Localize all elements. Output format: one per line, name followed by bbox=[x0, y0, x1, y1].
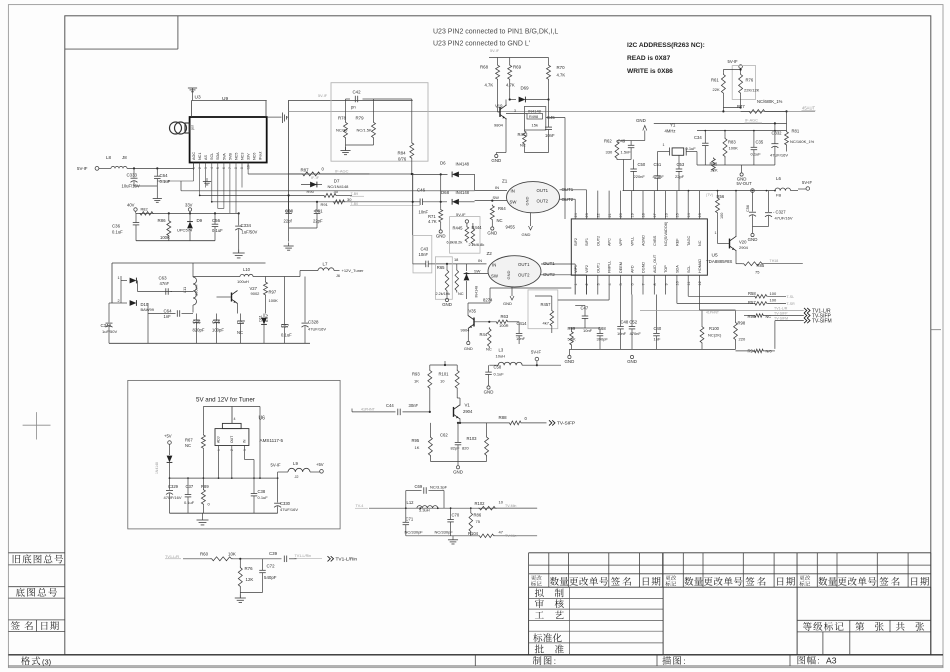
wire Z1 IN long line bbox=[180, 181, 182, 191]
svg-text:IN: IN bbox=[511, 189, 515, 194]
svg-text:SIF1: SIF1 bbox=[585, 238, 589, 246]
svg-text:- C327: - C327 bbox=[773, 210, 786, 215]
svg-text:SCL: SCL bbox=[210, 153, 214, 160]
svg-text:5V-IF: 5V-IF bbox=[728, 59, 738, 64]
svg-text:R67: R67 bbox=[185, 438, 193, 443]
wire tuner pin1 to 5V rail bbox=[193, 163, 195, 182]
svg-text:5VA: 5VA bbox=[222, 153, 226, 160]
wire V19 emitter bbox=[505, 118, 507, 152]
wire smps top rail bbox=[112, 262, 266, 264]
svg-text:V1: V1 bbox=[465, 403, 471, 408]
svg-text:R63: R63 bbox=[501, 314, 509, 319]
svg-text:psl: psl bbox=[191, 125, 195, 130]
svg-text:GND: GND bbox=[506, 271, 511, 280]
svg-text:24: 24 bbox=[574, 213, 578, 217]
svg-text:CVBS: CVBS bbox=[653, 235, 657, 246]
svg-text:TV1-L/Rin: TV1-L/Rin bbox=[336, 557, 358, 563]
svg-text:C39: C39 bbox=[269, 551, 278, 556]
svg-text:+12V_Tuner: +12V_Tuner bbox=[342, 268, 365, 273]
svg-text:IN4148: IN4148 bbox=[456, 190, 470, 195]
svg-text:10uH: 10uH bbox=[496, 353, 506, 358]
svg-text:R100: R100 bbox=[709, 326, 720, 331]
svg-text:1uF/50V: 1uF/50V bbox=[102, 329, 117, 334]
svg-text:U23 PIN2 connected to PIN1 B/G: U23 PIN2 connected to PIN1 B/G,DK,I,L bbox=[433, 29, 558, 36]
svg-text:19: 19 bbox=[630, 213, 634, 217]
svg-text:1.5nF: 1.5nF bbox=[621, 150, 632, 155]
wire SDA/SCL down from IC bbox=[676, 295, 678, 304]
wire V35 collector link bbox=[490, 287, 571, 289]
svg-text:J6: J6 bbox=[336, 274, 340, 278]
svg-text:OUT1: OUT1 bbox=[596, 263, 600, 273]
svg-text:SW: SW bbox=[491, 274, 499, 279]
wire IF vertical bbox=[412, 174, 414, 264]
ground (V1 stage) bbox=[457, 461, 459, 465]
label: checked bbox=[535, 599, 544, 608]
svg-text:TV-SIFP: TV-SIFP bbox=[774, 311, 788, 315]
IC U5 top pin wires bbox=[574, 211, 576, 219]
tuner pin numbers and stubs bbox=[193, 163, 195, 171]
svg-text:L12: L12 bbox=[407, 500, 415, 505]
svg-text:GND: GND bbox=[565, 359, 575, 364]
svg-text:C334: C334 bbox=[241, 223, 252, 228]
svg-text:NC/160K_1%: NC/160K_1% bbox=[790, 139, 815, 144]
svg-text:GND: GND bbox=[464, 346, 473, 351]
svg-text:15k: 15k bbox=[532, 123, 538, 128]
svg-text:10nF: 10nF bbox=[419, 210, 429, 215]
svg-text:L8: L8 bbox=[106, 155, 111, 160]
svg-text:22pF: 22pF bbox=[675, 174, 685, 179]
svg-text:100K: 100K bbox=[160, 235, 170, 240]
svg-text:100: 100 bbox=[720, 213, 724, 219]
svg-text:+5V: +5V bbox=[164, 434, 172, 439]
svg-text:0.1uF: 0.1uF bbox=[686, 146, 697, 151]
svg-text:R68: R68 bbox=[480, 65, 489, 70]
label: of sheets bbox=[896, 622, 905, 631]
wire IC bottom rail bbox=[569, 348, 735, 350]
svg-text:2904: 2904 bbox=[463, 409, 473, 414]
svg-text:47: 47 bbox=[499, 530, 504, 535]
svg-text:4.7K: 4.7K bbox=[428, 219, 437, 224]
svg-text:390pF: 390pF bbox=[597, 337, 609, 342]
svg-text:10nF: 10nF bbox=[516, 336, 526, 341]
wire V35 emitter bbox=[467, 328, 469, 341]
box 5V and 12V for Tuner bbox=[128, 380, 340, 529]
svg-text:5V-IF: 5V-IF bbox=[490, 49, 500, 53]
svg-text:DEEM: DEEM bbox=[619, 262, 623, 273]
svg-text:33V: 33V bbox=[247, 153, 251, 160]
svg-text:C37: C37 bbox=[186, 484, 194, 489]
svg-text:10: 10 bbox=[440, 378, 445, 383]
title block grid bbox=[529, 552, 931, 554]
wire HOMAD down bbox=[699, 295, 701, 311]
svg-text:NC1: NC1 bbox=[198, 153, 202, 160]
svg-text:3: 3 bbox=[204, 167, 208, 169]
svg-text:D6: D6 bbox=[440, 161, 446, 166]
bottom strip bar bbox=[8, 654, 943, 656]
tuner U3 box bbox=[190, 117, 267, 163]
wire FMPLL link bbox=[608, 295, 610, 301]
svg-text:3: 3 bbox=[514, 109, 516, 113]
wire lower rail bbox=[136, 240, 215, 242]
svg-text:OUT2: OUT2 bbox=[596, 236, 600, 246]
svg-text:10nF: 10nF bbox=[419, 252, 429, 257]
svg-text:AMS1117-5: AMS1117-5 bbox=[260, 438, 284, 443]
svg-text:GND: GND bbox=[436, 234, 446, 239]
svg-text:4k7: 4k7 bbox=[543, 321, 550, 326]
svg-text:NC(2K): NC(2K) bbox=[708, 333, 722, 338]
svg-text:12K: 12K bbox=[246, 577, 254, 582]
svg-text:T-SL: T-SL bbox=[787, 295, 795, 299]
svg-text:NC: NC bbox=[237, 330, 243, 335]
svg-text:SW: SW bbox=[510, 200, 518, 205]
svg-text:GND: GND bbox=[636, 118, 646, 123]
svg-text:GND: GND bbox=[748, 237, 758, 242]
ground (R71) bbox=[439, 230, 442, 233]
svg-text:IN4148: IN4148 bbox=[456, 162, 470, 167]
svg-text:20: 20 bbox=[619, 213, 623, 217]
svg-text:NC: NC bbox=[486, 347, 492, 352]
svg-text:C50: C50 bbox=[638, 162, 646, 167]
IC U5 TDA8885 box bbox=[571, 219, 707, 275]
label: sheet size A3 bbox=[798, 656, 816, 665]
svg-text:SIF2: SIF2 bbox=[574, 238, 578, 246]
svg-text:47UF/16V: 47UF/16V bbox=[280, 507, 298, 512]
box R457 bbox=[528, 290, 558, 329]
svg-text:L10: L10 bbox=[243, 267, 251, 272]
svg-text:C56: C56 bbox=[212, 218, 221, 223]
wire smps bottom rail bbox=[109, 342, 310, 344]
svg-text:NC: NC bbox=[497, 218, 503, 223]
svg-text:FMPLL: FMPLL bbox=[608, 261, 612, 273]
svg-text:AGND: AGND bbox=[642, 235, 646, 246]
svg-text:C71: C71 bbox=[406, 517, 414, 522]
svg-text:4: 4 bbox=[608, 283, 612, 285]
svg-text:2.2k/10k: 2.2k/10k bbox=[436, 292, 450, 296]
label: drafted bbox=[535, 588, 544, 597]
svg-text:5V-IF: 5V-IF bbox=[802, 180, 812, 185]
wire D6/D68 anode join bbox=[440, 174, 442, 201]
svg-text:OUT1: OUT1 bbox=[537, 188, 549, 193]
svg-text:R60: R60 bbox=[200, 551, 209, 556]
svg-text::: : bbox=[817, 656, 819, 665]
svg-text:R44: R44 bbox=[480, 332, 488, 337]
svg-text:C63: C63 bbox=[159, 275, 168, 280]
svg-text:220nF: 220nF bbox=[634, 174, 646, 179]
svg-text::: : bbox=[554, 657, 556, 666]
svg-text:IN4148: IN4148 bbox=[475, 286, 479, 298]
ground (C334) bbox=[238, 250, 240, 254]
svg-text:R86: R86 bbox=[158, 218, 167, 223]
wire AUD link bbox=[351, 409, 353, 412]
svg-text:WRITE is 0X86: WRITE is 0X86 bbox=[627, 68, 673, 75]
ground (filter) bbox=[452, 536, 454, 540]
header: change-mark / qty / change-order / signature / date bbox=[531, 575, 542, 580]
svg-text:45AUT: 45AUT bbox=[802, 106, 815, 111]
wire regulator top rail bbox=[203, 406, 260, 408]
svg-text:2: 2 bbox=[585, 283, 589, 285]
svg-text:REF: REF bbox=[676, 238, 680, 246]
svg-text:TV-SIFP: TV-SIFP bbox=[557, 421, 575, 427]
svg-text:5: 5 bbox=[619, 283, 623, 285]
svg-text:APC: APC bbox=[608, 238, 612, 246]
svg-text:C49: C49 bbox=[618, 139, 626, 144]
svg-text:5V-IF: 5V-IF bbox=[77, 166, 88, 171]
svg-text:100R: 100R bbox=[499, 323, 509, 328]
svg-text:NC: NC bbox=[458, 291, 464, 296]
svg-text:SW: SW bbox=[474, 269, 481, 274]
svg-text:R69: R69 bbox=[513, 65, 522, 70]
svg-text:L9: L9 bbox=[293, 461, 298, 466]
svg-text:4MHz: 4MHz bbox=[665, 129, 676, 134]
svg-text:C42: C42 bbox=[353, 89, 362, 94]
diode D13 bbox=[169, 444, 171, 455]
svg-text:VIF2: VIF2 bbox=[585, 265, 589, 273]
svg-text:4.7K: 4.7K bbox=[557, 73, 566, 78]
svg-text:22K: 22K bbox=[713, 87, 720, 92]
svg-text:R89: R89 bbox=[201, 484, 209, 489]
label: format(3) bbox=[21, 656, 40, 665]
wire AGC line bbox=[199, 170, 201, 195]
terminal TV-SIFP right bbox=[804, 313, 807, 318]
left margin table bbox=[8, 552, 64, 554]
svg-text:SDA: SDA bbox=[676, 265, 680, 273]
svg-text:TAGC: TAGC bbox=[687, 235, 691, 246]
wire top rail bbox=[489, 57, 549, 59]
svg-text:R86: R86 bbox=[474, 513, 482, 518]
svg-text:0.1uF: 0.1uF bbox=[184, 500, 195, 505]
svg-text:22pf: 22pf bbox=[284, 219, 293, 224]
header: change-mark / qty / change-order / signature / date bbox=[800, 575, 811, 580]
svg-text:5V-IF: 5V-IF bbox=[456, 212, 466, 217]
svg-text:41PHNT: 41PHNT bbox=[706, 311, 719, 315]
svg-text:R96: R96 bbox=[748, 314, 756, 319]
svg-text:(3): (3) bbox=[42, 657, 52, 666]
svg-text:NC(S/VADO6): NC(S/VADO6) bbox=[664, 221, 668, 246]
svg-text:100: 100 bbox=[770, 291, 777, 296]
svg-text:100: 100 bbox=[770, 298, 777, 303]
svg-text:NC/36: NC/36 bbox=[336, 128, 348, 133]
svg-text:C58: C58 bbox=[494, 365, 502, 370]
svg-text:3: 3 bbox=[243, 449, 247, 451]
svg-text:220: 220 bbox=[739, 337, 746, 342]
svg-text:22: 22 bbox=[597, 213, 601, 217]
svg-text:R93: R93 bbox=[412, 372, 420, 377]
svg-text:TV-Min: TV-Min bbox=[505, 534, 516, 538]
svg-text:TV-SIFM: TV-SIFM bbox=[774, 317, 788, 321]
svg-text:2: 2 bbox=[198, 167, 202, 169]
svg-text:+5V: +5V bbox=[316, 462, 324, 467]
label: sheet no bbox=[855, 622, 864, 631]
wire V1 emitter node bbox=[459, 419, 461, 423]
svg-text:1: 1 bbox=[663, 143, 665, 147]
svg-text:33V: 33V bbox=[185, 202, 193, 207]
svg-text:D7: D7 bbox=[334, 178, 340, 183]
wire 5V rail bbox=[170, 477, 278, 479]
svg-text:41PHNT: 41PHNT bbox=[361, 407, 376, 411]
svg-text:5.3uH: 5.3uH bbox=[419, 508, 430, 513]
ground (C64) bbox=[153, 198, 162, 200]
svg-text:C34: C34 bbox=[694, 135, 702, 140]
alignment box C42 bbox=[331, 83, 428, 162]
svg-text:R64: R64 bbox=[498, 206, 506, 211]
label: base-drawing number bbox=[16, 588, 57, 597]
svg-text:4: 4 bbox=[234, 417, 236, 421]
ground (Z2) bbox=[511, 287, 513, 296]
svg-text:R98: R98 bbox=[738, 321, 746, 326]
svg-text:U5: U5 bbox=[712, 253, 718, 259]
wire 5V-OUT rail bbox=[623, 190, 775, 192]
svg-text:R62: R62 bbox=[604, 139, 612, 144]
svg-text:10K: 10K bbox=[228, 551, 236, 556]
wire link SDA bus to IC bbox=[500, 196, 689, 198]
svg-text:D68: D68 bbox=[441, 190, 450, 195]
svg-text:47UF/16V: 47UF/16V bbox=[308, 327, 326, 332]
svg-text:C53: C53 bbox=[677, 162, 685, 167]
wire AGC rail bbox=[287, 100, 289, 213]
svg-text:R58: R58 bbox=[748, 291, 756, 296]
ground (R76) bbox=[239, 595, 241, 599]
wires smps verticals bbox=[147, 314, 149, 344]
svg-text:C46: C46 bbox=[417, 188, 426, 193]
svg-text:R88: R88 bbox=[499, 415, 508, 420]
svg-text:IN: IN bbox=[495, 185, 499, 190]
svg-text:C333: C333 bbox=[127, 173, 138, 178]
svg-text:L7: L7 bbox=[323, 261, 328, 266]
svg-text:C36: C36 bbox=[112, 224, 121, 229]
svg-text:C64: C64 bbox=[164, 309, 173, 314]
svg-text:9002: 9002 bbox=[251, 291, 261, 296]
svg-text:30nF: 30nF bbox=[409, 403, 419, 408]
svg-text:U6: U6 bbox=[259, 416, 266, 422]
ground (Z1) bbox=[530, 213, 532, 226]
box R76 bbox=[732, 66, 755, 100]
label: signature bbox=[11, 621, 20, 629]
wire bbox=[240, 592, 262, 594]
svg-text:47nF: 47nF bbox=[160, 281, 170, 286]
svg-text:Z1: Z1 bbox=[502, 179, 508, 184]
centering tick right bbox=[931, 329, 941, 331]
svg-text:8: 8 bbox=[234, 167, 238, 169]
svg-text:GND: GND bbox=[491, 158, 501, 163]
terminal TV-SIFP bbox=[549, 420, 552, 425]
ground (C327) bbox=[751, 233, 754, 236]
svg-text:1: 1 bbox=[217, 449, 221, 451]
svg-text:IN: IN bbox=[243, 439, 247, 443]
wire tuner pin verticals bbox=[223, 170, 225, 209]
svg-text:VPP: VPP bbox=[619, 238, 623, 246]
svg-text:47UF/16V: 47UF/16V bbox=[770, 153, 788, 158]
svg-text:1nF: 1nF bbox=[654, 337, 661, 342]
svg-text:5V-OUT: 5V-OUT bbox=[737, 181, 753, 186]
svg-text:R104: R104 bbox=[468, 531, 479, 536]
svg-text:OUT1: OUT1 bbox=[518, 262, 530, 267]
svg-text:1K: 1K bbox=[414, 378, 419, 383]
svg-text:GND: GND bbox=[525, 197, 530, 206]
box R445 R444 bbox=[450, 217, 480, 254]
label: date bbox=[41, 621, 58, 630]
svg-text:IF-IF: IF-IF bbox=[311, 176, 320, 180]
svg-text:23: 23 bbox=[585, 213, 589, 217]
svg-text:Z2: Z2 bbox=[487, 251, 493, 256]
svg-text:820: 820 bbox=[462, 446, 469, 451]
label: approved bbox=[535, 645, 544, 654]
svg-text:J2: J2 bbox=[295, 475, 299, 479]
svg-text:VPLL: VPLL bbox=[630, 237, 634, 246]
svg-text:IN: IN bbox=[492, 263, 496, 268]
ground (pin bus) bbox=[206, 178, 208, 182]
ground (R78) bbox=[345, 147, 347, 151]
svg-text:100pF: 100pF bbox=[212, 328, 224, 333]
svg-text:C70: C70 bbox=[452, 513, 460, 518]
svg-text:330: 330 bbox=[606, 150, 613, 155]
svg-text:10: 10 bbox=[499, 499, 504, 504]
svg-text:NC6: NC6 bbox=[253, 153, 257, 160]
svg-text:V35: V35 bbox=[469, 309, 477, 314]
wire AGC stack bottom bbox=[697, 164, 775, 166]
terminal TV1-L/Rin bbox=[328, 556, 331, 561]
svg-text:7: 7 bbox=[228, 167, 232, 169]
svg-text:R102: R102 bbox=[475, 501, 486, 506]
svg-text:SCL: SCL bbox=[687, 266, 691, 273]
svg-text:21: 21 bbox=[608, 213, 612, 217]
svg-text:8: 8 bbox=[653, 283, 657, 285]
diode D14 bbox=[466, 264, 468, 271]
label: process bbox=[535, 611, 544, 618]
resistor R444 bbox=[471, 227, 475, 245]
svg-text:IFout: IFout bbox=[259, 152, 263, 160]
svg-text:82pF: 82pF bbox=[451, 446, 461, 451]
wire R498 out bbox=[546, 117, 565, 119]
svg-text:1: 1 bbox=[574, 283, 578, 285]
svg-text:16: 16 bbox=[664, 213, 668, 217]
svg-text:R87: R87 bbox=[301, 167, 310, 172]
svg-text:470nF: 470nF bbox=[630, 331, 642, 336]
svg-text:NC/1.5K: NC/1.5K bbox=[357, 128, 372, 133]
svg-text:NC/680K_1%: NC/680K_1% bbox=[757, 99, 783, 104]
svg-text:C44: C44 bbox=[386, 403, 394, 408]
svg-text:TH18: TH18 bbox=[770, 259, 779, 263]
ground (AGC) bbox=[741, 165, 743, 173]
svg-text:13: 13 bbox=[698, 213, 702, 217]
svg-text:75: 75 bbox=[476, 519, 481, 524]
svg-text:NC5: NC5 bbox=[234, 153, 238, 160]
svg-text:C328: C328 bbox=[308, 320, 319, 325]
svg-text:GND: GND bbox=[627, 359, 637, 364]
header: change-mark / qty / change-order / signature / date bbox=[666, 575, 677, 580]
svg-text:7: 7 bbox=[642, 283, 646, 285]
svg-text:NC: NC bbox=[185, 443, 191, 448]
svg-text:0.1uF: 0.1uF bbox=[212, 228, 223, 233]
revision box top-left bbox=[177, 16, 179, 49]
ground (C48) bbox=[631, 349, 633, 355]
svg-text:2904: 2904 bbox=[739, 245, 749, 250]
terminal TV-SIFM bbox=[804, 318, 807, 323]
svg-text:NC: NC bbox=[698, 240, 702, 246]
svg-text:R81: R81 bbox=[792, 129, 800, 134]
svg-text:C43: C43 bbox=[421, 247, 429, 252]
svg-text:6: 6 bbox=[222, 167, 226, 169]
svg-text:R82: R82 bbox=[141, 207, 148, 212]
svg-text:9: 9 bbox=[664, 283, 668, 285]
svg-text:10nF: 10nF bbox=[617, 331, 627, 336]
svg-text:(TV): (TV) bbox=[706, 193, 713, 197]
svg-text:4: 4 bbox=[210, 167, 214, 169]
svg-text:C68: C68 bbox=[598, 326, 606, 331]
svg-text:AFD: AFD bbox=[630, 265, 634, 273]
svg-text:0.1uF: 0.1uF bbox=[112, 230, 123, 235]
tuner shield ground bbox=[267, 116, 282, 118]
box C43 bbox=[413, 235, 432, 273]
